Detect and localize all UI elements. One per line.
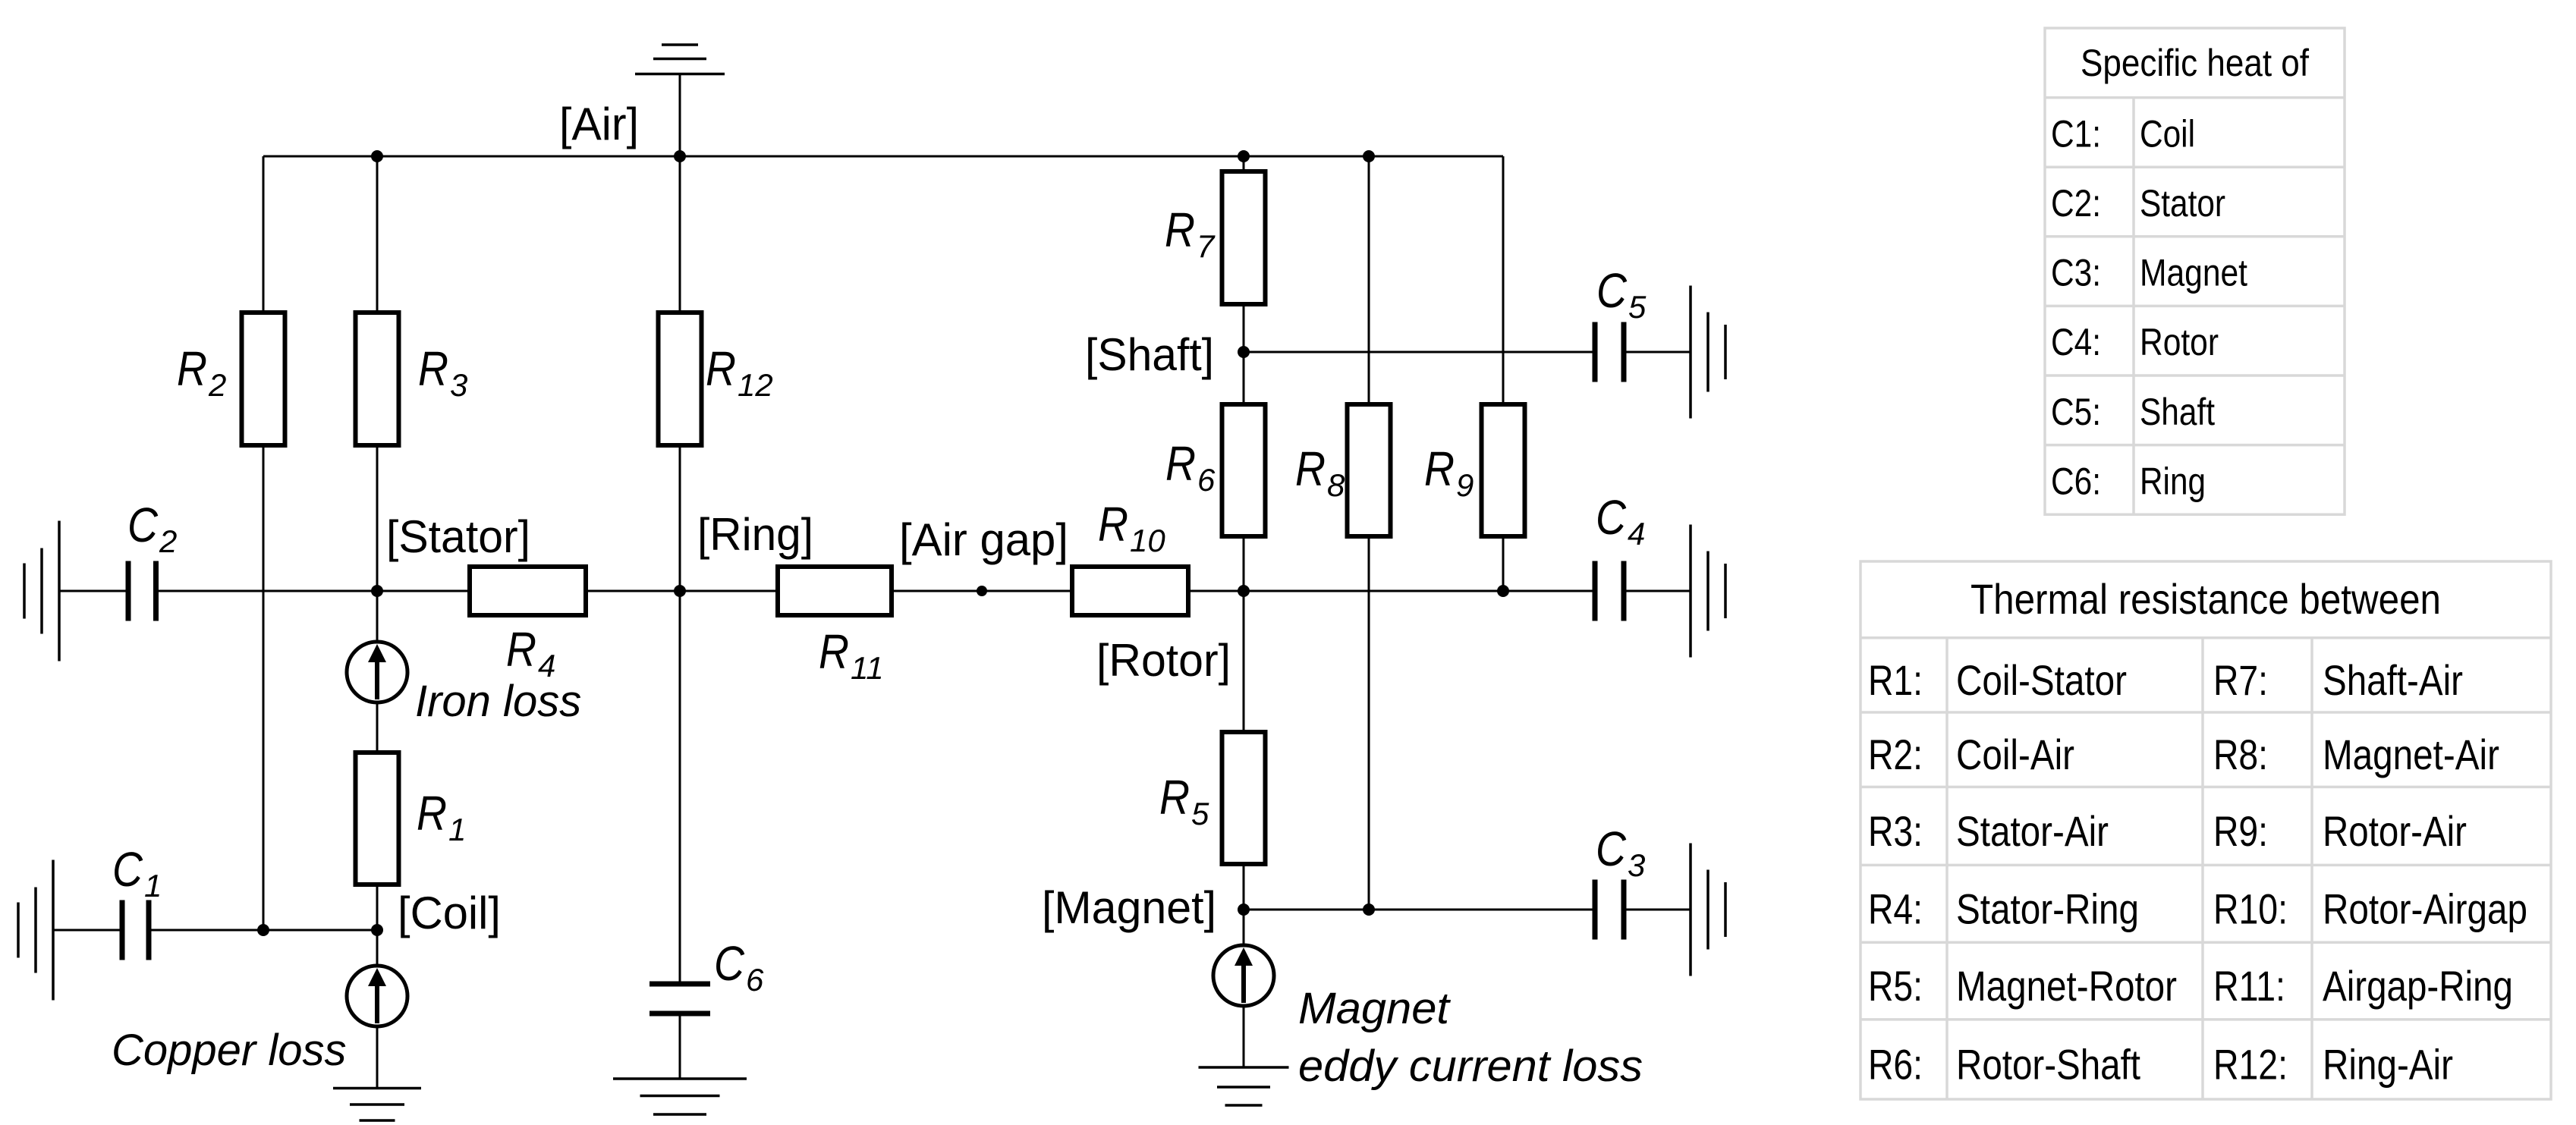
- svg-text:6: 6: [1197, 462, 1216, 498]
- wire C2 ground to plate: [59, 590, 128, 592]
- wire main line R10-C4: [1188, 590, 1595, 592]
- node coil-R2: [257, 924, 269, 936]
- svg-text:Coil: Coil: [2140, 112, 2195, 155]
- svg-text:1: 1: [448, 812, 466, 847]
- svg-text:[Ring]: [Ring]: [697, 509, 813, 560]
- svg-text:[Rotor]: [Rotor]: [1096, 635, 1231, 686]
- svg-text:R: R: [418, 341, 448, 396]
- svg-text:R: R: [1165, 203, 1195, 257]
- wire R3 to stator node: [376, 445, 379, 591]
- svg-text:Iron loss: Iron loss: [415, 677, 581, 726]
- ground (C2, left): [24, 521, 59, 661]
- svg-text:Stator: Stator: [2140, 182, 2225, 225]
- svg-text:R9:: R9:: [2213, 807, 2268, 855]
- wire C4 to ground: [1624, 590, 1691, 592]
- resistor R1: [356, 753, 399, 885]
- table2 row R3: Stator-Air / R9: Rotor-Air: [1868, 807, 2467, 855]
- resistor R12: [659, 313, 702, 445]
- current source Iron loss: [347, 642, 407, 702]
- svg-text:12: 12: [738, 367, 773, 403]
- wire air ground stem: [679, 74, 681, 157]
- wire R1 to coil node: [376, 885, 379, 930]
- wire R2 branch upper: [263, 156, 265, 313]
- wire R5 to magnet node: [1243, 864, 1245, 910]
- svg-text:11: 11: [851, 650, 884, 686]
- ground (C5, right): [1691, 286, 1725, 419]
- ground (air, top): [635, 45, 725, 74]
- node Rotor: [1238, 585, 1250, 597]
- table2 row R2: Coil-Air / R8: Magnet-Air: [1868, 731, 2499, 778]
- svg-text:Rotor-Air: Rotor-Air: [2323, 807, 2467, 855]
- svg-text:R8:: R8:: [2213, 731, 2268, 778]
- node magnet-R8: [1363, 903, 1375, 916]
- wire R8 to magnet line: [1368, 536, 1370, 910]
- wire R2 branch lower (to coil line): [263, 445, 265, 930]
- node air-R12: [674, 150, 686, 162]
- svg-text:Rotor-Shaft: Rotor-Shaft: [1956, 1040, 2140, 1088]
- svg-text:R3:: R3:: [1868, 807, 1923, 855]
- ground (magnet eddy loss): [1199, 1067, 1289, 1105]
- label R11: [819, 624, 884, 686]
- resistor R3: [356, 313, 399, 445]
- wire R9 to main line: [1502, 536, 1505, 591]
- svg-text:3: 3: [1628, 847, 1645, 883]
- label C4: [1596, 490, 1645, 552]
- wire magnet line to C3: [1244, 909, 1595, 911]
- svg-text:R1:: R1:: [1868, 656, 1923, 704]
- label R12: [706, 341, 773, 403]
- svg-text:C4:: C4:: [2051, 321, 2101, 363]
- current source Copper loss: [347, 966, 407, 1026]
- wire coil node to copper loss source: [376, 930, 379, 966]
- svg-text:Coil-Air: Coil-Air: [1956, 731, 2074, 778]
- capacitor C1: [122, 900, 149, 960]
- svg-text:Magnet: Magnet: [1298, 984, 1452, 1033]
- svg-text:Magnet-Rotor: Magnet-Rotor: [1956, 962, 2177, 1010]
- label C1: [112, 842, 162, 903]
- resistor R2: [242, 313, 285, 445]
- capacitor C4: [1595, 561, 1624, 621]
- resistor R8: [1348, 404, 1391, 536]
- label Magnet (eddy line 1): [1298, 984, 1452, 1033]
- svg-text:R: R: [506, 622, 536, 677]
- svg-text:6: 6: [746, 962, 764, 998]
- wire shaft line to C5: [1244, 351, 1595, 354]
- svg-text:Magnet: Magnet: [2140, 252, 2247, 294]
- label eddy current loss (line 2): [1298, 1042, 1643, 1091]
- svg-text:C: C: [1596, 822, 1627, 876]
- svg-text:R2:: R2:: [1868, 731, 1923, 778]
- label [Coil]: [398, 888, 501, 938]
- resistor R5: [1222, 732, 1266, 864]
- svg-text:Stator-Ring: Stator-Ring: [1956, 885, 2139, 932]
- node Ring: [674, 585, 686, 597]
- ground (C1, left): [18, 860, 53, 1001]
- svg-text:R11:: R11:: [2213, 962, 2285, 1010]
- svg-text:R: R: [417, 786, 447, 841]
- wire C5 to ground: [1624, 351, 1691, 354]
- label [Stator]: [386, 511, 530, 562]
- resistor R4: [470, 567, 586, 615]
- label R5: [1159, 770, 1209, 831]
- resistor R6: [1222, 404, 1266, 536]
- label R9: [1424, 442, 1474, 503]
- svg-text:Shaft-Air: Shaft-Air: [2323, 656, 2463, 704]
- ground (C6, bottom): [613, 1079, 747, 1114]
- svg-text:3: 3: [450, 367, 467, 403]
- svg-text:eddy current loss: eddy current loss: [1298, 1042, 1643, 1091]
- svg-text:C2:: C2:: [2051, 182, 2101, 225]
- label R3: [418, 341, 467, 403]
- wire iron loss to R1: [376, 702, 379, 753]
- svg-text:7: 7: [1197, 228, 1216, 264]
- wire main line R4-R11: [586, 590, 778, 592]
- svg-text:Magnet-Air: Magnet-Air: [2323, 731, 2499, 778]
- table1 row C5: Shaft: [2051, 391, 2215, 433]
- svg-text:R: R: [1424, 442, 1455, 496]
- resistor R11: [778, 567, 892, 615]
- svg-text:C: C: [714, 936, 745, 991]
- svg-text:10: 10: [1130, 523, 1165, 558]
- node air-R7: [1238, 150, 1250, 162]
- label C5: [1596, 263, 1647, 325]
- table1 row C6: Ring: [2051, 460, 2206, 502]
- ground (C3, right): [1691, 844, 1725, 976]
- table1 row C2: Stator: [2051, 182, 2225, 225]
- svg-text:Coil-Stator: Coil-Stator: [1956, 656, 2127, 704]
- wire copper loss to ground: [376, 1026, 379, 1089]
- svg-text:Airgap-Ring: Airgap-Ring: [2323, 962, 2513, 1010]
- wire air to R8: [1368, 156, 1370, 404]
- svg-text:[Air gap]: [Air gap]: [899, 514, 1068, 565]
- wire main line R11-R10: [892, 590, 1072, 592]
- resistor R7: [1222, 171, 1266, 304]
- svg-text:R: R: [1295, 442, 1326, 496]
- svg-text:C3:: C3:: [2051, 252, 2101, 294]
- svg-text:2: 2: [159, 523, 177, 559]
- svg-text:C1:: C1:: [2051, 112, 2101, 155]
- svg-text:C6:: C6:: [2051, 460, 2101, 502]
- svg-text:R12:: R12:: [2213, 1040, 2288, 1088]
- wire R12 to ring node: [679, 445, 681, 591]
- svg-text:R6:: R6:: [1868, 1040, 1923, 1088]
- label C6: [714, 936, 764, 998]
- svg-text:Thermal resistance between: Thermal resistance between: [1971, 575, 2441, 623]
- svg-text:Rotor-Airgap: Rotor-Airgap: [2323, 885, 2527, 932]
- svg-text:R: R: [1159, 770, 1190, 825]
- label [Magnet]: [1042, 882, 1216, 933]
- node Magnet: [1238, 903, 1250, 916]
- wire main line C2-R4: [156, 590, 470, 592]
- node Shaft: [1238, 346, 1250, 358]
- svg-text:1: 1: [144, 868, 162, 903]
- svg-text:5: 5: [1191, 796, 1209, 831]
- capacitor C5: [1595, 322, 1624, 382]
- ground (C4, right): [1691, 525, 1725, 658]
- node Stator: [371, 585, 383, 597]
- svg-text:8: 8: [1327, 467, 1345, 503]
- svg-text:2: 2: [208, 367, 226, 403]
- label R4: [506, 622, 555, 683]
- svg-text:R: R: [177, 341, 207, 396]
- wire R7-shaft-R6: [1243, 304, 1245, 404]
- wire eddy source to ground: [1243, 1006, 1245, 1067]
- table2 row R4: Stator-Ring / R10: Rotor-Airgap: [1868, 885, 2527, 932]
- label R1: [417, 786, 466, 847]
- wire magnet node to eddy source: [1243, 910, 1245, 945]
- current source Magnet eddy current loss: [1213, 945, 1274, 1006]
- table1 row C3: Magnet: [2051, 252, 2247, 294]
- capacitor C2: [128, 561, 156, 621]
- table1 header text: [2081, 42, 2309, 84]
- svg-text:Specific heat of: Specific heat of: [2081, 42, 2309, 84]
- label [Air gap]: [899, 514, 1068, 565]
- wire C6 to ground: [679, 1013, 681, 1079]
- svg-text:R4:: R4:: [1868, 885, 1923, 932]
- wire ring node to C6: [679, 591, 681, 984]
- label [Air]: [559, 99, 639, 149]
- svg-text:R10:: R10:: [2213, 885, 2288, 932]
- svg-text:Ring-Air: Ring-Air: [2323, 1040, 2453, 1088]
- svg-text:5: 5: [1628, 289, 1647, 325]
- label R6: [1165, 436, 1216, 498]
- table Specific heat of: grid: [2045, 28, 2345, 514]
- svg-text:C: C: [127, 498, 159, 552]
- svg-text:[Air]: [Air]: [559, 99, 639, 149]
- svg-text:[Shaft]: [Shaft]: [1085, 329, 1214, 380]
- svg-text:R7:: R7:: [2213, 656, 2268, 704]
- wire air to R7: [1243, 156, 1245, 171]
- wire R3 branch upper: [376, 156, 379, 313]
- svg-text:R: R: [1098, 497, 1128, 552]
- wire stator node to iron loss source: [376, 591, 379, 642]
- svg-text:[Stator]: [Stator]: [386, 511, 530, 562]
- table2 header text: [1971, 575, 2441, 623]
- table2 row R6: Rotor-Shaft / R12: Ring-Air: [1868, 1040, 2453, 1088]
- svg-text:Ring: Ring: [2140, 460, 2206, 502]
- svg-text:R: R: [1165, 436, 1196, 491]
- wire R12 branch upper: [679, 156, 681, 313]
- ground (copper loss): [333, 1089, 421, 1121]
- label [Ring]: [697, 509, 813, 560]
- node Air gap: [977, 586, 987, 596]
- label Copper loss: [112, 1026, 346, 1075]
- label C2: [127, 498, 177, 559]
- svg-text:R: R: [819, 624, 849, 679]
- wire C3 to ground: [1624, 909, 1691, 911]
- label [Rotor]: [1096, 635, 1231, 686]
- wire coil line C1-coil node: [149, 929, 377, 932]
- label Iron loss: [415, 677, 581, 726]
- resistor R10: [1072, 567, 1188, 615]
- svg-text:C: C: [1596, 490, 1627, 545]
- label R8: [1295, 442, 1345, 503]
- table2 row R1: Coil-Stator / R7: Shaft-Air: [1868, 656, 2463, 704]
- table2 row R5: Magnet-Rotor / R11: Airgap-Ring: [1868, 962, 2513, 1010]
- label R7: [1165, 203, 1216, 264]
- node Coil: [371, 924, 383, 936]
- svg-text:Copper loss: Copper loss: [112, 1026, 346, 1075]
- wire air top horizontal: [263, 156, 1503, 158]
- svg-text:[Magnet]: [Magnet]: [1042, 882, 1216, 933]
- label R2: [177, 341, 226, 403]
- svg-text:Rotor: Rotor: [2140, 321, 2219, 363]
- label [Shaft]: [1085, 329, 1214, 380]
- wire R6 to rotor to R5: [1243, 536, 1245, 732]
- wire air to R9: [1502, 156, 1505, 404]
- svg-text:Shaft: Shaft: [2140, 391, 2215, 433]
- table1 row C1: Coil: [2051, 112, 2195, 155]
- capacitor C3: [1595, 880, 1624, 940]
- wire C1 ground to plate: [53, 929, 122, 932]
- capacitor C6: [650, 984, 710, 1013]
- svg-text:R: R: [706, 341, 736, 396]
- svg-text:9: 9: [1456, 467, 1474, 503]
- svg-text:R5:: R5:: [1868, 962, 1923, 1010]
- svg-text:Stator-Air: Stator-Air: [1956, 807, 2109, 855]
- table Thermal resistance between: grid: [1860, 561, 2551, 1099]
- svg-text:[Coil]: [Coil]: [398, 888, 501, 938]
- table1 row C4: Rotor: [2051, 321, 2219, 363]
- svg-text:C: C: [1596, 263, 1628, 318]
- label C3: [1596, 822, 1645, 883]
- node air-R8: [1363, 150, 1375, 162]
- resistor R9: [1482, 404, 1525, 536]
- node rotor-R9: [1497, 585, 1509, 597]
- label R10: [1098, 497, 1165, 558]
- node air-R3: [371, 150, 383, 162]
- svg-text:C: C: [112, 842, 143, 897]
- svg-text:4: 4: [1628, 516, 1645, 552]
- svg-text:C5:: C5:: [2051, 391, 2101, 433]
